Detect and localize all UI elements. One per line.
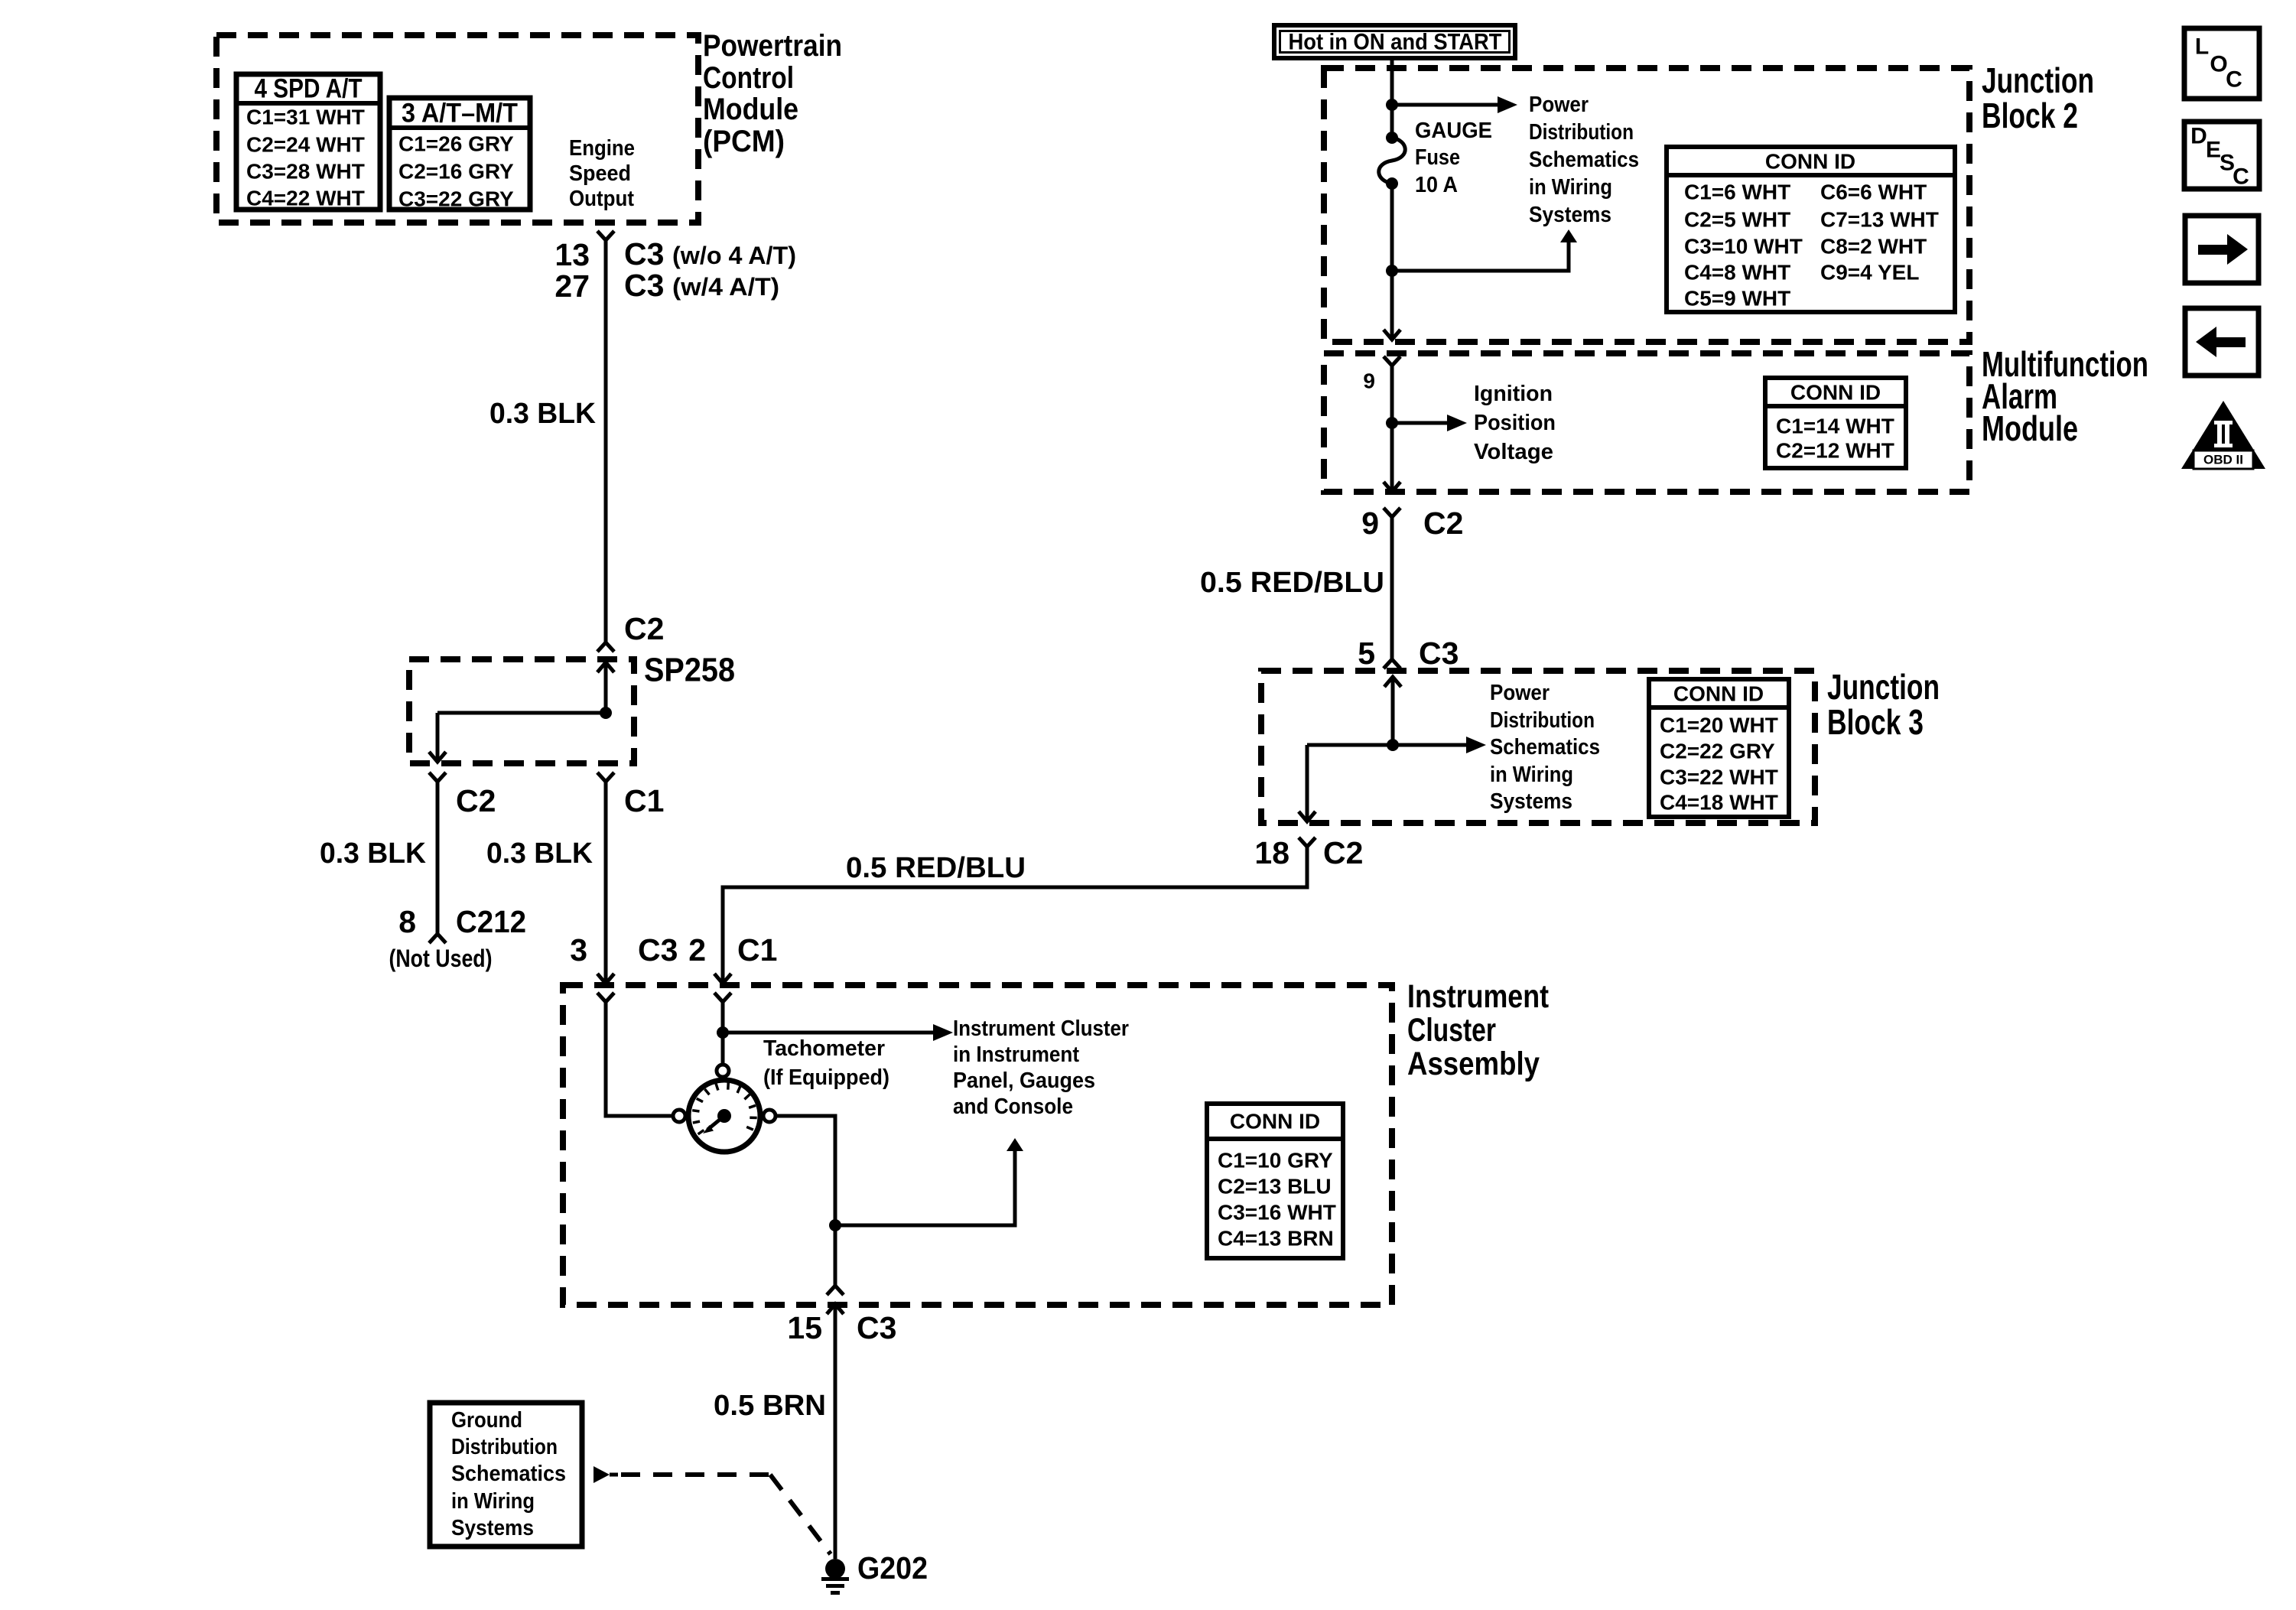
svg-text:CONN ID: CONN ID [1765, 150, 1855, 174]
svg-text:13: 13 [554, 237, 590, 272]
svg-text:C3: C3 [624, 268, 664, 303]
svg-text:C: C [2226, 67, 2242, 93]
svg-text:Voltage: Voltage [1474, 440, 1553, 464]
svg-text:Schematics: Schematics [1490, 735, 1600, 759]
svg-text:C3=22 WHT: C3=22 WHT [1660, 766, 1778, 789]
svg-text:9: 9 [1361, 506, 1379, 541]
svg-text:Ground: Ground [451, 1408, 522, 1433]
svg-text:C4=8 WHT: C4=8 WHT [1684, 261, 1790, 285]
svg-text:GAUGE: GAUGE [1415, 119, 1492, 143]
svg-text:C1: C1 [624, 783, 664, 818]
svg-text:C212: C212 [456, 904, 526, 939]
svg-text:D: D [2190, 124, 2207, 149]
svg-text:Speed: Speed [569, 161, 631, 186]
svg-text:Instrument: Instrument [1407, 978, 1549, 1015]
svg-text:Hot in ON and START: Hot in ON and START [1289, 30, 1502, 55]
svg-text:SP258: SP258 [644, 652, 735, 689]
svg-text:Powertrain: Powertrain [703, 29, 842, 63]
svg-text:(If Equipped): (If Equipped) [763, 1065, 889, 1090]
svg-text:OBD II: OBD II [2203, 453, 2243, 467]
svg-text:C3=10 WHT: C3=10 WHT [1684, 235, 1803, 259]
svg-text:8: 8 [398, 904, 416, 939]
svg-text:C2=13 BLU: C2=13 BLU [1218, 1175, 1332, 1199]
svg-text:15: 15 [787, 1310, 822, 1345]
svg-text:0.3 BLK: 0.3 BLK [320, 838, 427, 870]
svg-text:C7=13 WHT: C7=13 WHT [1820, 208, 1939, 232]
svg-text:3 A/T–M/T: 3 A/T–M/T [402, 99, 518, 128]
svg-text:C2=24 WHT: C2=24 WHT [246, 133, 365, 157]
svg-text:5: 5 [1358, 636, 1375, 671]
svg-text:C3=28 WHT: C3=28 WHT [246, 160, 365, 184]
svg-text:and Console: and Console [953, 1094, 1073, 1119]
svg-text:0.3 BLK: 0.3 BLK [486, 838, 594, 870]
svg-text:Module: Module [703, 93, 798, 126]
svg-text:Instrument Cluster: Instrument Cluster [953, 1016, 1129, 1041]
svg-text:Block 2: Block 2 [1982, 96, 2078, 135]
svg-text:C2: C2 [456, 783, 496, 818]
svg-text:Position: Position [1474, 411, 1556, 435]
svg-text:G202: G202 [857, 1550, 928, 1586]
svg-text:L: L [2195, 34, 2209, 60]
svg-text:C3: C3 [638, 932, 678, 968]
svg-text:C2=16 GRY: C2=16 GRY [398, 160, 514, 184]
svg-text:C4=22 WHT: C4=22 WHT [246, 187, 365, 210]
svg-text:Junction: Junction [1982, 60, 2094, 100]
svg-text:Module: Module [1982, 408, 2078, 448]
svg-text:Schematics: Schematics [1529, 148, 1639, 172]
svg-text:C8=2 WHT: C8=2 WHT [1820, 235, 1927, 259]
svg-text:C: C [2233, 164, 2249, 190]
svg-text:Distribution: Distribution [1490, 708, 1595, 733]
svg-text:C3=22 GRY: C3=22 GRY [398, 187, 514, 211]
svg-text:Power: Power [1529, 93, 1589, 117]
svg-text:C9=4 YEL: C9=4 YEL [1820, 261, 1919, 285]
svg-text:0.5 RED/BLU: 0.5 RED/BLU [846, 852, 1026, 884]
svg-text:18: 18 [1254, 835, 1289, 870]
svg-text:CONN ID: CONN ID [1790, 381, 1881, 405]
svg-text:Systems: Systems [1490, 789, 1572, 814]
svg-text:C2: C2 [624, 611, 664, 646]
svg-text:(PCM): (PCM) [703, 125, 785, 158]
svg-text:Control: Control [703, 61, 794, 95]
svg-text:in Wiring: in Wiring [451, 1489, 535, 1514]
svg-text:Tachometer: Tachometer [763, 1036, 885, 1061]
svg-text:O: O [2210, 52, 2227, 77]
svg-text:0.5 RED/BLU: 0.5 RED/BLU [1200, 567, 1384, 599]
svg-text:C2=12 WHT: C2=12 WHT [1776, 439, 1894, 463]
svg-text:C3=16 WHT: C3=16 WHT [1218, 1201, 1336, 1225]
svg-text:(w/o 4 A/T): (w/o 4 A/T) [672, 242, 796, 269]
svg-text:in Wiring: in Wiring [1490, 763, 1573, 787]
svg-text:0.3 BLK: 0.3 BLK [489, 398, 597, 430]
svg-text:Junction: Junction [1827, 667, 1940, 707]
svg-text:C3: C3 [624, 236, 664, 272]
svg-text:4 SPD A/T: 4 SPD A/T [255, 74, 363, 104]
svg-text:C1=31 WHT: C1=31 WHT [246, 106, 365, 129]
svg-text:27: 27 [554, 268, 590, 304]
svg-text:C2=5 WHT: C2=5 WHT [1684, 208, 1790, 232]
svg-text:0.5 BRN: 0.5 BRN [714, 1390, 826, 1422]
svg-text:C5=9 WHT: C5=9 WHT [1684, 287, 1790, 311]
svg-text:(w/4 A/T): (w/4 A/T) [672, 273, 779, 301]
svg-text:Systems: Systems [1529, 203, 1611, 227]
svg-text:Fuse: Fuse [1415, 145, 1460, 170]
svg-text:Power: Power [1490, 681, 1550, 705]
svg-text:C1=10 GRY: C1=10 GRY [1218, 1149, 1333, 1173]
svg-text:Cluster: Cluster [1407, 1012, 1496, 1049]
svg-text:CONN ID: CONN ID [1230, 1110, 1320, 1134]
svg-text:C2: C2 [1423, 506, 1463, 541]
svg-text:in Wiring: in Wiring [1529, 175, 1612, 200]
svg-text:C4=18 WHT: C4=18 WHT [1660, 791, 1778, 815]
svg-text:Panel, Gauges: Panel, Gauges [953, 1068, 1095, 1093]
svg-text:Systems: Systems [451, 1516, 534, 1540]
svg-text:Assembly: Assembly [1407, 1046, 1540, 1082]
svg-text:C2=22 GRY: C2=22 GRY [1660, 740, 1775, 763]
svg-text:Schematics: Schematics [451, 1462, 566, 1486]
svg-text:Distribution: Distribution [1529, 120, 1634, 145]
svg-text:CONN ID: CONN ID [1673, 682, 1764, 706]
svg-text:C1: C1 [737, 932, 777, 968]
svg-text:C2: C2 [1323, 835, 1363, 870]
svg-text:3: 3 [570, 932, 587, 968]
svg-text:9: 9 [1363, 369, 1375, 393]
svg-text:C3: C3 [1419, 636, 1459, 671]
svg-text:C3: C3 [857, 1310, 896, 1345]
svg-text:Block 3: Block 3 [1827, 702, 1924, 742]
svg-text:C1=26 GRY: C1=26 GRY [398, 132, 514, 156]
svg-text:10 A: 10 A [1415, 173, 1458, 197]
svg-text:Ignition: Ignition [1474, 382, 1553, 406]
svg-text:2: 2 [688, 932, 706, 968]
svg-text:C1=14 WHT: C1=14 WHT [1776, 415, 1894, 438]
svg-text:C4=13 BRN: C4=13 BRN [1218, 1227, 1334, 1251]
svg-text:C6=6 WHT: C6=6 WHT [1820, 181, 1927, 204]
svg-text:C1=6 WHT: C1=6 WHT [1684, 181, 1790, 204]
svg-text:C1=20 WHT: C1=20 WHT [1660, 714, 1778, 737]
svg-text:in Instrument: in Instrument [953, 1042, 1079, 1067]
svg-text:Distribution: Distribution [451, 1435, 558, 1459]
svg-text:Output: Output [569, 187, 634, 211]
svg-text:Engine: Engine [569, 136, 635, 161]
svg-text:(Not Used): (Not Used) [389, 945, 493, 972]
